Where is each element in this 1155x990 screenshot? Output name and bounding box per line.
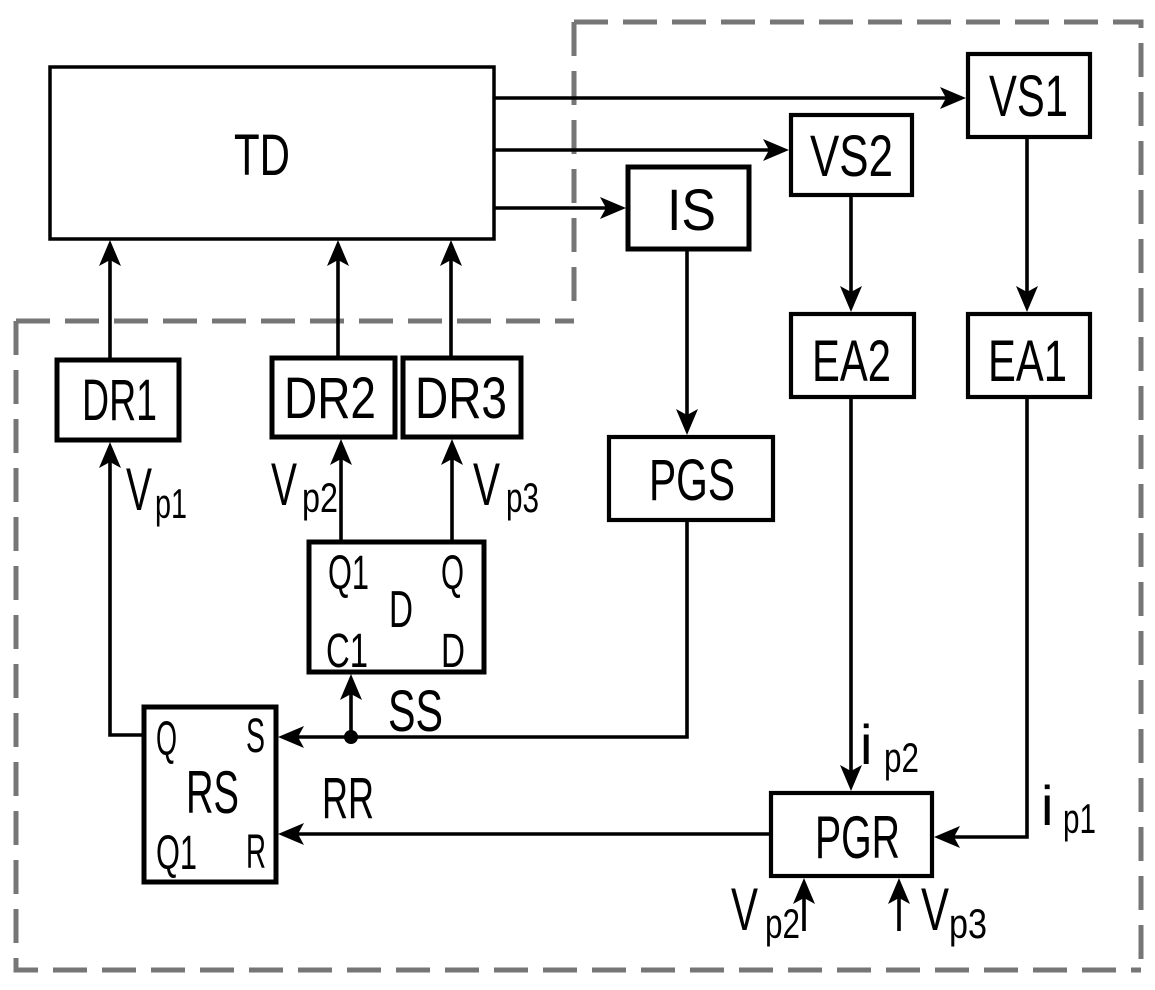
- svg-text:i: i: [1041, 774, 1053, 837]
- svg-text:Q: Q: [156, 713, 177, 766]
- svg-text:DR1: DR1: [82, 368, 157, 433]
- wire PGR to RS R (RR net): [278, 823, 771, 845]
- svg-text:VS2: VS2: [810, 124, 893, 189]
- svg-text:V: V: [271, 451, 297, 518]
- label Vp2 (PGR input): [731, 876, 800, 947]
- wire TD to VS1: [494, 87, 966, 109]
- svg-text:RS: RS: [186, 759, 239, 826]
- block TD: [50, 67, 494, 239]
- block EA2: [791, 314, 914, 397]
- svg-text:DR3: DR3: [415, 366, 507, 431]
- wire Vp2 into PGR bottom: [793, 878, 815, 931]
- svg-text:Q1: Q1: [328, 547, 369, 600]
- svg-text:p3: p3: [949, 900, 987, 947]
- block DR3: [403, 358, 521, 437]
- svg-text:D: D: [441, 625, 465, 678]
- svg-text:R: R: [246, 826, 266, 879]
- svg-text:p3: p3: [506, 474, 539, 521]
- svg-text:S: S: [246, 710, 265, 763]
- wire DR1 to TD: [99, 240, 121, 360]
- wire PGS to RS S (SS net): [278, 520, 687, 748]
- svg-text:TD: TD: [234, 123, 290, 188]
- label i p2: [860, 713, 919, 781]
- wire Vp3 into PGR bottom: [888, 878, 910, 931]
- svg-text:V: V: [921, 876, 949, 943]
- wire TD to IS: [494, 197, 626, 219]
- wire D Q to DR3: [441, 439, 463, 542]
- dashed boundary top edge of control section: [16, 319, 574, 324]
- dashed boundary left edge of sampling section: [572, 22, 577, 316]
- wire EA2 to PGR (i_p2): [840, 397, 862, 791]
- label i p1: [1041, 774, 1096, 842]
- block PGR: [771, 793, 932, 876]
- svg-text:PGS: PGS: [649, 448, 735, 513]
- wire IS to PGS: [676, 249, 698, 435]
- svg-text:VS1: VS1: [989, 64, 1068, 129]
- block RS latch: [144, 707, 276, 882]
- block D flip-flop: [309, 542, 484, 672]
- wire EA1 to PGR (i_p1): [934, 397, 1027, 848]
- svg-text:p1: p1: [1063, 795, 1096, 842]
- junction node on SS wire: [344, 730, 358, 744]
- wire VS2 to EA2: [840, 195, 862, 312]
- wire TD to VS2: [494, 139, 789, 161]
- svg-text:V: V: [473, 451, 500, 518]
- dashed boundary left and bottom edges: [16, 321, 1141, 970]
- label Vp3 (driver): [473, 451, 539, 521]
- block PGS: [609, 437, 773, 520]
- wire junction to D C1: [340, 674, 362, 737]
- svg-text:RR: RR: [322, 766, 374, 831]
- block IS: [628, 167, 749, 249]
- wire RS Q to DR1: [99, 442, 144, 735]
- svg-text:EA2: EA2: [812, 329, 891, 394]
- svg-text:Q: Q: [441, 547, 464, 600]
- block DR1: [57, 360, 179, 440]
- label Vp1: [126, 456, 187, 527]
- svg-text:EA1: EA1: [988, 329, 1067, 394]
- svg-text:p2: p2: [884, 734, 919, 781]
- svg-text:p2: p2: [302, 474, 338, 521]
- label Vp3 (PGR input): [921, 876, 987, 947]
- wire DR3 to TD: [440, 240, 462, 358]
- label Vp2 (driver): [271, 451, 338, 521]
- wire D Q1 to DR2: [330, 439, 352, 542]
- svg-text:DR2: DR2: [284, 366, 376, 431]
- svg-text:p1: p1: [155, 480, 187, 527]
- svg-text:p2: p2: [765, 900, 800, 947]
- svg-text:C1: C1: [326, 625, 368, 678]
- svg-text:SS: SS: [388, 679, 443, 744]
- svg-text:V: V: [126, 456, 152, 523]
- block VS1: [968, 54, 1090, 137]
- svg-text:IS: IS: [667, 178, 716, 243]
- dashed boundary top and right edges: [574, 22, 1141, 970]
- wire VS1 to EA1: [1016, 137, 1038, 312]
- svg-text:V: V: [731, 876, 758, 943]
- wire DR2 to TD: [327, 240, 349, 358]
- block VS2: [791, 115, 912, 195]
- svg-text:D: D: [389, 581, 413, 639]
- svg-text:Q1: Q1: [156, 827, 197, 880]
- block DR2: [272, 358, 395, 437]
- svg-text:PGR: PGR: [815, 804, 900, 871]
- block EA1: [968, 314, 1090, 397]
- svg-text:i: i: [860, 713, 872, 776]
